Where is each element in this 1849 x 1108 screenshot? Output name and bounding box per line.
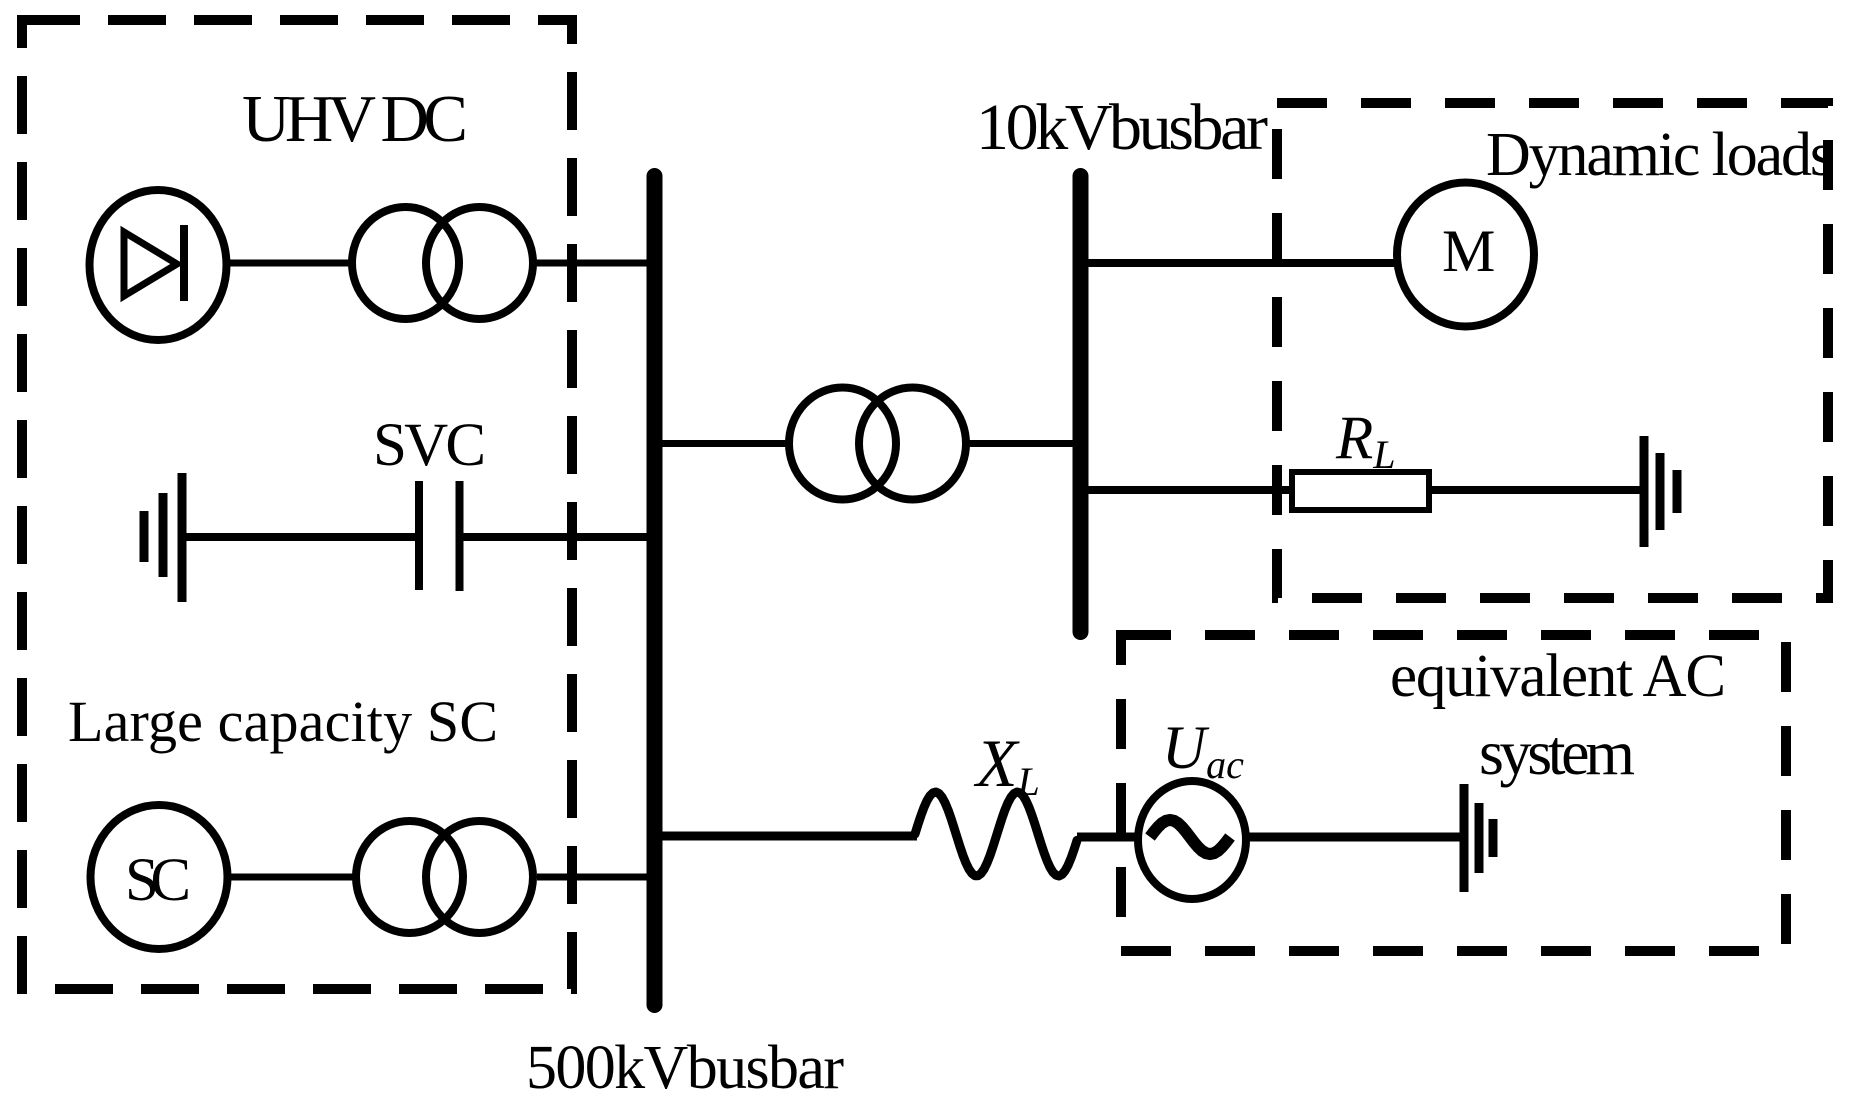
wire G1 to SVC capacitor [186, 533, 415, 541]
svg-text:SC: SC [125, 847, 191, 914]
UHVDC zone dashed box [22, 20, 572, 989]
svg-text:SVC: SVC [373, 412, 486, 479]
wire SC to transformer T2 [230, 874, 356, 881]
svg-text:RL: RL [1335, 405, 1396, 477]
motor M circle [1397, 183, 1534, 327]
synchronous condenser SC circle [91, 805, 228, 949]
ground G3 bar short [1489, 819, 1498, 857]
converter diode triangle [124, 232, 177, 296]
AC source Uac circle [1138, 781, 1246, 899]
transformer T2 circle a [356, 821, 463, 933]
transformer T1 circle b [426, 207, 533, 319]
transformer T3 circle a [789, 388, 896, 500]
wire XL to AC source Uac [1077, 833, 1140, 842]
wire T1 to 500kV busbar [533, 260, 650, 267]
ground G2 bar tall [1640, 436, 1649, 547]
svg-text:Dynamic loads: Dynamic loads [1486, 121, 1834, 189]
transformer T3 circle b [859, 388, 966, 500]
ground G3 bar mid [1475, 803, 1484, 873]
resistor RL body [1292, 472, 1429, 510]
svg-text:M: M [1442, 218, 1495, 284]
converter valve circle U1 [90, 190, 227, 340]
svg-text:Large capacity SC: Large capacity SC [68, 689, 498, 754]
wire Uac to ground G3 [1248, 833, 1460, 842]
500kV busbar [647, 176, 663, 1005]
wire 10kV busbar to resistor RL [1086, 486, 1292, 494]
AC source sine symbol [1150, 820, 1230, 854]
wire RL to ground G2 [1432, 486, 1640, 494]
wire 500kV busbar to inductor XL [660, 832, 917, 841]
Dynamic loads dashed box [1277, 103, 1828, 598]
ground G3 bar tall [1460, 784, 1469, 892]
wire converter to transformer T1 [226, 260, 352, 267]
SVC capacitor plate left [415, 481, 423, 590]
ground G2 bar mid [1656, 453, 1665, 530]
10kV busbar [1073, 176, 1089, 632]
svg-text:500kVbusbar: 500kVbusbar [526, 1034, 844, 1102]
wire 500kV busbar to transformer T3 [660, 440, 789, 447]
ground G1 bar tall [178, 473, 187, 602]
transformer T2 circle b [426, 821, 533, 933]
svg-text:XL: XL [973, 725, 1040, 804]
svg-text:10kVbusbar: 10kVbusbar [976, 91, 1268, 164]
svg-text:Uac: Uac [1162, 715, 1244, 787]
inductor XL winding [915, 792, 1077, 876]
equivalent AC system dashed box [1121, 635, 1786, 951]
ground G1 bar mid [159, 493, 168, 577]
svg-text:system: system [1479, 717, 1635, 788]
wire 10kV busbar to motor M [1086, 259, 1397, 267]
wire T2 to 500kV busbar [537, 874, 650, 881]
svg-text:UHV DC: UHV DC [242, 82, 468, 156]
SVC capacitor plate right [456, 481, 464, 591]
transformer T1 circle a [352, 207, 459, 319]
ground G2 bar short [1673, 470, 1682, 513]
converter diode cathode bar [180, 225, 188, 301]
wire SVC capacitor to 500kV busbar [463, 533, 650, 541]
svg-text:equivalent AC: equivalent AC [1390, 643, 1726, 710]
wire T3 to 10kV busbar [966, 440, 1075, 447]
ground G1 bar short [140, 511, 149, 562]
